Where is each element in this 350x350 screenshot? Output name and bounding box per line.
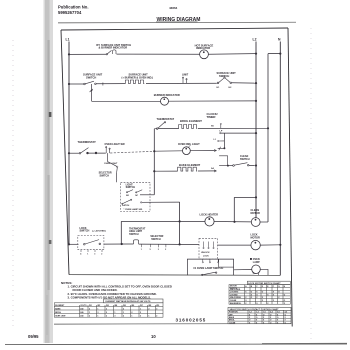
junction rung4 riser [153, 150, 155, 152]
svg-text:09/95: 09/95 [28, 334, 39, 339]
svg-text:W2: W2 [97, 305, 100, 307]
svg-text:W6: W6 [131, 305, 134, 307]
svg-text:1: 1 [123, 312, 124, 314]
svg-text:43664: 43664 [169, 6, 178, 10]
svg-text:INDICATOR: INDICATOR [196, 46, 210, 50]
svg-text:2: 2 [106, 316, 107, 318]
svg-text:2: 2 [165, 249, 166, 251]
junction L2 clean [255, 164, 257, 166]
clean switch wire to L2 [249, 164, 256, 166]
svg-text:W5: W5 [123, 305, 126, 307]
svg-text:3: 3 [158, 249, 159, 251]
svg-text:10: 10 [151, 334, 156, 339]
switch selector light [117, 166, 118, 167]
table right upper body [229, 285, 290, 305]
riser 121 [120, 221, 122, 244]
clock terminal stub 1 [219, 140, 225, 142]
left scan shadow band [44, 0, 54, 343]
junction riser121 rung6 [121, 243, 123, 245]
switch surface unit left [84, 81, 103, 85]
svg-text:240: 240 [80, 307, 83, 310]
junction L2 LP [255, 132, 257, 134]
svg-text:BROIL ELEMENT: BROIL ELEMENT [180, 119, 202, 123]
svg-text:2: 2 [89, 316, 90, 318]
wire to selector [108, 162, 117, 167]
svg-text:MOTOR: MOTOR [251, 236, 260, 239]
svg-text:SWITCH: SWITCH [240, 158, 250, 161]
svg-text:3: 3 [114, 316, 115, 318]
header rule [58, 21, 296, 24]
bake wire to clock terminal [198, 170, 217, 172]
rung 2 wire mid [96, 83, 125, 85]
clock terminal stub 2 [218, 147, 225, 149]
junction on N top [279, 53, 281, 55]
svg-text:4-5: 4-5 [285, 311, 288, 314]
clock terminal LP wire [221, 132, 257, 134]
rung 1 wire right [117, 53, 200, 55]
riser 234 [233, 197, 235, 221]
svg-text:3: 3 [106, 308, 107, 310]
stub lamp to bottom [258, 273, 260, 275]
heating element broil coil [179, 124, 198, 128]
diagram frame top edge [61, 28, 288, 30]
svg-text:LIMIT: LIMIT [182, 74, 189, 77]
svg-text:2: 2 [123, 308, 124, 310]
svg-text:UNLOCKING: UNLOCKING [230, 297, 241, 299]
svg-text:LOCKED: LOCKED [230, 294, 238, 296]
wire jog from feeder to N [268, 53, 280, 55]
svg-text:5: 5 [150, 249, 151, 251]
bottom rule [5, 343, 347, 346]
svg-text:OVEN IND. LIGHT: OVEN IND. LIGHT [178, 142, 200, 146]
lock switch terminals [81, 250, 102, 252]
svg-text:SURF. UNIT: SURF. UNIT [55, 316, 66, 318]
svg-text:SWITCH: SWITCH [86, 76, 96, 80]
wire heater to clean motor [214, 221, 251, 223]
svg-text:L2: L2 [253, 38, 257, 42]
rung 4 wire to clock terminal [190, 150, 216, 152]
rung 6 wire left [69, 243, 79, 245]
dashed box lock switch [78, 235, 104, 249]
rung 6 wire mid [104, 243, 134, 245]
junction L1 rung2 [68, 83, 70, 85]
dashed box door latch [199, 238, 218, 259]
svg-text:1-2: 1-2 [249, 312, 252, 314]
diagram frame left edge [61, 30, 69, 275]
svg-text:1-5: 1-5 [263, 312, 266, 314]
rung 6 wire mid2 [139, 243, 199, 245]
svg-text:#1 OVEN LAMP SWITCH: #1 OVEN LAMP SWITCH [193, 266, 223, 270]
svg-text:THERMOSTAT: THERMOSTAT [157, 117, 175, 121]
svg-text:BAKE/BROIL: BAKE/BROIL [230, 302, 242, 305]
svg-text:1: 1 [114, 312, 115, 314]
svg-text:NO: NO [126, 195, 129, 197]
svg-text:BAKE ELEMENT: BAKE ELEMENT [179, 163, 201, 167]
svg-text:LOCK HEATER: LOCK HEATER [200, 213, 219, 217]
thermal high limit bump [134, 240, 139, 244]
svg-text:2: 2 [106, 312, 107, 314]
oven light drop wire [107, 153, 109, 161]
svg-text:TIMER: TIMER [207, 115, 217, 119]
svg-text:VOLTS: VOLTS [80, 305, 87, 307]
svg-text:1: 1 [97, 308, 98, 310]
junction L1 rung6 [68, 243, 70, 245]
wire burner indicator to L2 [169, 100, 257, 102]
wire oven lamp right corner [260, 269, 268, 275]
svg-text:3-5: 3-5 [277, 312, 280, 314]
lamp box terminals [202, 259, 219, 263]
switch oven light [106, 147, 111, 154]
svg-text:1: 1 [131, 316, 132, 318]
svg-text:SWITCH: SWITCH [100, 174, 110, 177]
rung 2 wire left [69, 83, 84, 85]
svg-text:1: 1 [148, 316, 149, 318]
svg-text:SWITCH: SWITCH [151, 238, 161, 241]
table right lower texts [229, 311, 287, 325]
switch surface unit right [217, 77, 231, 84]
lock heater feed wire [121, 220, 205, 222]
svg-text:LOCKING: LOCKING [230, 292, 239, 294]
broil rung wire to feeder [198, 127, 268, 129]
rung 4 wire left [69, 152, 80, 154]
dashed box light switch [121, 182, 151, 211]
svg-text:2: 2 [123, 316, 124, 318]
svg-text:3: 3 [140, 316, 141, 318]
table right upper title [247, 281, 290, 284]
wire box to oven lamp [234, 269, 252, 271]
table left body [54, 303, 163, 317]
svg-text:240: 240 [80, 311, 83, 314]
clock terminal vertical [223, 133, 225, 148]
svg-text:SWITCH: SWITCH [219, 74, 229, 78]
junction L1 rung4 [68, 152, 70, 154]
switch oven lamp [202, 272, 217, 276]
switch clean [233, 163, 249, 167]
riser 179 [179, 202, 181, 244]
svg-text:BAKE: BAKE [229, 316, 235, 319]
svg-text:W3: W3 [106, 305, 109, 307]
bus L2 [255, 42, 257, 218]
left margin dotted line [12, 40, 14, 330]
svg-text:* OVEN LAMP SW.: * OVEN LAMP SW. [124, 208, 143, 211]
svg-text:2: 2 [101, 253, 102, 255]
svg-text:SWITCH: SWITCH [126, 186, 136, 189]
latch box contacts [203, 242, 214, 249]
clock bracket [219, 156, 228, 166]
svg-text:W7: W7 [140, 305, 143, 307]
broil rung wire [158, 127, 179, 129]
junction riser234 heater wire [233, 221, 235, 223]
svg-text:BURNER INDICATOR: BURNER INDICATOR [154, 93, 180, 97]
svg-text:LATCH: LATCH [122, 204, 130, 207]
switch limit [182, 77, 187, 83]
svg-text:3: 3 [94, 253, 95, 255]
block bottom rule [54, 323, 291, 326]
lamp burner indicator [161, 97, 169, 105]
junction broil to feeder [267, 127, 269, 129]
svg-text:W1: W1 [89, 305, 92, 307]
lamp oven indicator light [183, 147, 191, 155]
svg-text:2: 2 [89, 308, 90, 310]
svg-text:2: 2 [148, 308, 149, 310]
svg-text:L1: L1 [66, 38, 70, 42]
rung 5 bake wire [154, 170, 177, 172]
junction L2 jog [255, 196, 257, 198]
svg-text:SWITCH: SWITCH [80, 230, 90, 233]
diagram frame bottom edge [69, 274, 280, 277]
heating element bake coil [177, 167, 197, 171]
riser corner into light switch box [140, 194, 154, 196]
switch right-rear surface unit [106, 50, 116, 55]
clean switch wire [228, 165, 233, 167]
svg-text:(+ BURNER & OVEN IND.): (+ BURNER & OVEN IND.) [122, 75, 154, 79]
table right lower body [228, 310, 291, 324]
svg-text:ELEMENT: ELEMENT [55, 305, 65, 307]
bus L1 [68, 42, 70, 245]
table left texts [55, 304, 159, 318]
svg-text:316002055: 316002055 [176, 317, 207, 322]
svg-text:2: 2 [156, 316, 157, 318]
svg-text:BAKE: BAKE [55, 307, 61, 310]
svg-text:1: 1 [97, 316, 98, 318]
rung 4 wire to lamp [154, 150, 182, 152]
wire vertical feeder to N [267, 54, 269, 222]
lamp hot surface indicator [200, 50, 209, 59]
wire lock motor to N [260, 244, 280, 246]
svg-text:UNLOCK: UNLOCK [201, 252, 210, 254]
heating element surface unit coil [125, 80, 144, 84]
lamp oven [252, 265, 261, 274]
switch oven thermostat [79, 148, 97, 154]
svg-text:BROIL: BROIL [55, 312, 62, 314]
svg-text:1-3: 1-3 [256, 312, 259, 314]
junction L2 rung2 [255, 82, 257, 84]
svg-text:BROIL: BROIL [229, 320, 235, 322]
junction N lock motor [279, 244, 281, 246]
rung 4 dashed wire [110, 151, 154, 153]
svg-text:1: 1 [89, 312, 90, 314]
right margin dotted line [310, 28, 312, 340]
motor lock [251, 240, 260, 249]
svg-text:3: 3 [156, 308, 157, 310]
riser 234 top jog to L2 [234, 196, 256, 198]
wire clean motor to feeder [260, 221, 268, 223]
svg-text:240: 240 [80, 315, 83, 318]
rung 4 wire mid [88, 152, 106, 154]
switch lock [84, 240, 101, 245]
svg-text:W8: W8 [148, 305, 151, 307]
rung 1 wire left [69, 53, 107, 55]
svg-text:3: 3 [97, 312, 98, 314]
rung 2 wire to L2 [232, 82, 257, 84]
junction riser bake [153, 170, 155, 172]
svg-text:1: 1 [140, 308, 141, 310]
svg-text:LAMP: LAMP [253, 261, 260, 264]
table right upper texts [230, 285, 286, 305]
svg-text:CLEAN: CLEAN [230, 299, 237, 302]
switch light contacts upper [126, 190, 142, 193]
svg-text:1: 1 [141, 249, 142, 251]
riser broil-bake [153, 129, 155, 195]
lamp lock heater [205, 217, 214, 226]
wire into light box [116, 173, 118, 183]
terminal tick S6 [220, 124, 222, 128]
svg-text:5995267704: 5995267704 [58, 10, 82, 15]
wire tap down from rung2 [91, 84, 93, 101]
svg-text:& BURNER INDICATOR: & BURNER INDICATOR [99, 46, 128, 50]
rung 2 wire mid2 [146, 82, 217, 84]
svg-text:2: 2 [140, 312, 141, 314]
junction riser179 heater wire [179, 220, 181, 222]
svg-text:W9: W9 [156, 305, 159, 307]
svg-text:2: 2 [131, 312, 132, 314]
terminal arrow rung4 [214, 149, 217, 151]
switch tick on tap [90, 89, 93, 92]
junction L1 rung1 [68, 53, 70, 55]
switch light contacts lower [122, 199, 132, 204]
oven lamp switch box [187, 259, 233, 275]
rung 1 wire to L2 [208, 53, 256, 56]
svg-text:(+ LATCHED): (+ LATCHED) [92, 230, 106, 233]
svg-text:1: 1 [87, 253, 88, 255]
svg-text:POSITION: POSITION [229, 312, 238, 314]
table left title [104, 299, 163, 303]
table right lower title [228, 307, 291, 310]
diagram frame right edge [288, 28, 292, 327]
wire burner indicator rung [92, 100, 161, 102]
junction L2 rung1 [255, 53, 257, 55]
wire from light box to riser179 [142, 201, 180, 203]
svg-text:OVEN LIGHT SW.: OVEN LIGHT SW. [105, 143, 126, 146]
selector terminals on rung6 [142, 244, 166, 247]
junction L2 burner rung [255, 100, 257, 102]
svg-text:THERMOSTAT: THERMOSTAT [78, 140, 97, 144]
svg-text:MOTOR: MOTOR [251, 212, 260, 215]
motor clean [251, 218, 260, 227]
wire latch box to lock motor [218, 244, 252, 246]
svg-text:SWITCH: SWITCH [129, 233, 139, 236]
bus N [279, 42, 281, 276]
svg-text:2-4: 2-4 [270, 311, 273, 314]
svg-text:UNLOCKED: UNLOCKED [230, 289, 241, 291]
junction riser179 rung6 [179, 243, 181, 245]
svg-text:Publication No.: Publication No. [58, 5, 88, 10]
svg-text:LOCK: LOCK [203, 255, 209, 257]
wire latch box drop [218, 259, 220, 267]
terminal arrow bake [214, 170, 217, 172]
switch broil thermostat [154, 122, 165, 130]
